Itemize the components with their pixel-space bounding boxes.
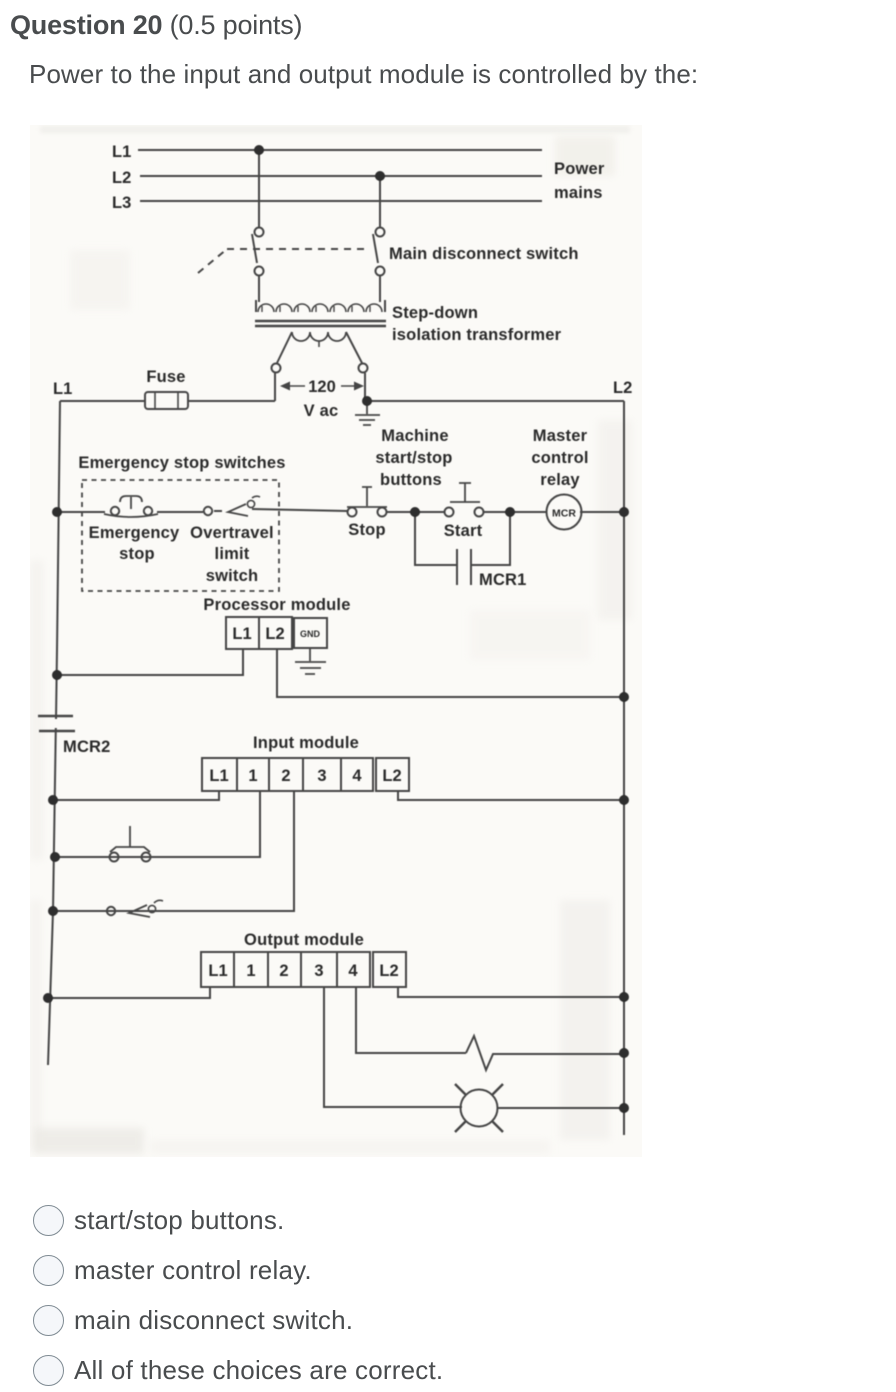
svg-text:L1: L1 [209,767,228,785]
svg-text:L1: L1 [232,625,251,643]
svg-text:L2: L2 [379,962,398,980]
svg-text:3: 3 [317,767,326,785]
svg-text:limit: limit [215,545,250,563]
svg-text:Processor module: Processor module [203,596,350,614]
svg-text:Master: Master [533,427,588,445]
svg-text:Step-down: Step-down [392,304,478,322]
svg-text:Machine: Machine [381,427,448,445]
svg-text:relay: relay [540,471,580,489]
svg-text:120: 120 [308,378,336,396]
svg-text:start/stop: start/stop [375,449,452,467]
svg-text:4: 4 [348,962,358,980]
svg-text:Overtravel: Overtravel [190,524,274,542]
svg-text:L1: L1 [53,380,72,398]
svg-text:L1: L1 [208,962,227,980]
svg-text:4: 4 [352,767,362,785]
svg-text:MCR2: MCR2 [63,738,111,756]
svg-text:Fuse: Fuse [146,368,185,386]
svg-text:3: 3 [314,962,323,980]
svg-text:Emergency stop switches: Emergency stop switches [78,454,285,472]
svg-text:stop: stop [119,545,155,563]
svg-text:L2: L2 [613,379,632,397]
svg-text:Start: Start [444,522,483,540]
svg-text:MCR: MCR [552,508,576,520]
svg-text:Output module: Output module [244,931,364,949]
svg-text:mains: mains [554,184,603,202]
svg-text:Main disconnect switch: Main disconnect switch [389,245,579,263]
svg-text:control: control [531,449,588,467]
svg-text:switch: switch [206,567,259,585]
svg-text:L1: L1 [112,143,131,161]
svg-text:isolation transformer: isolation transformer [392,326,562,344]
svg-text:Power: Power [554,160,605,178]
svg-text:L2: L2 [112,169,131,187]
svg-text:MCR1: MCR1 [479,571,527,589]
svg-text:V ac: V ac [304,402,339,420]
svg-text:L2: L2 [265,625,284,643]
svg-text:2: 2 [281,767,290,785]
svg-text:2: 2 [279,962,288,980]
svg-text:Stop: Stop [348,521,385,539]
svg-text:1: 1 [246,962,255,980]
svg-text:Emergency: Emergency [89,524,180,542]
svg-text:L2: L2 [382,767,401,785]
svg-text:L3: L3 [112,194,131,212]
svg-text:buttons: buttons [380,471,442,489]
svg-text:1: 1 [248,767,257,785]
svg-text:GND: GND [300,629,321,639]
svg-text:Input module: Input module [253,734,359,752]
